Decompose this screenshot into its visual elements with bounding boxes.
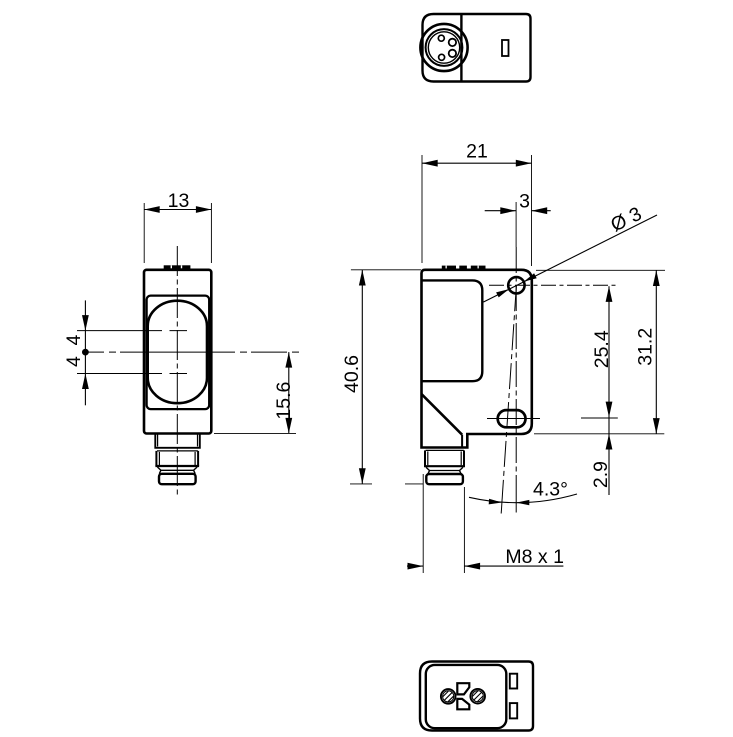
4.3 degree arc (469, 494, 577, 503)
svg-text:4: 4 (63, 356, 85, 367)
arc arrow right (516, 500, 529, 505)
dimension 15.6 line (288, 352, 290, 433)
dimension 4/4 line (84, 300, 86, 405)
dimension 15.6 extension line (214, 432, 296, 434)
front connector thread bottom (155, 465, 199, 467)
dimension 21 line (422, 162, 532, 164)
svg-text:21: 21 (466, 140, 488, 162)
svg-text:4.3°: 4.3° (533, 478, 568, 500)
leader arrow upper (524, 273, 537, 281)
dimension 3 line left part (485, 210, 516, 212)
hole horizontal centerline (489, 284, 618, 286)
front view lens panel (147, 296, 210, 410)
diameter leader line (484, 215, 658, 302)
dimension 2.9 arrow (606, 434, 613, 450)
front connector tip (159, 474, 196, 484)
pin 4 (439, 54, 445, 60)
top view divider line (460, 15, 462, 81)
M8 connector inner ring (428, 32, 459, 63)
mounting slot (498, 410, 526, 427)
svg-text:13: 13 (168, 190, 190, 212)
bowtie top (457, 683, 469, 694)
dimension 25.4 line (608, 286, 610, 495)
bottom extension line (534, 433, 664, 435)
side connector pinch band (426, 467, 430, 474)
front view horizontal centerline (88, 351, 104, 353)
dimension 3 line right part (532, 210, 551, 212)
side connector tip (426, 474, 463, 484)
front connector thread top line (157, 450, 198, 452)
thread inner lines (158, 452, 160, 465)
chamfer step line (461, 435, 463, 448)
hole vertical extension line (515, 202, 517, 247)
dimension 13 extension lines (143, 203, 145, 263)
svg-text:4: 4 (63, 335, 85, 346)
side view lens panel (422, 280, 483, 381)
dimension 21 extension lines (421, 155, 423, 263)
svg-text:15.6: 15.6 (273, 382, 295, 420)
svg-text:25.4: 25.4 (591, 330, 613, 368)
svg-text:3: 3 (519, 190, 530, 212)
side connector thread sides (424, 450, 426, 466)
lower optical axis line (77, 373, 162, 375)
M8 dimension line (407, 565, 423, 567)
thread inner lines (427, 451, 429, 465)
svg-text:M8 x 1: M8 x 1 (505, 546, 564, 568)
slot horizontal centerline (487, 418, 540, 420)
tilted optical axis 4.3 deg (502, 285, 516, 495)
bottom slot 2 (510, 703, 517, 718)
front view vertical centerline (176, 246, 178, 498)
top extension line (536, 269, 665, 271)
svg-text:2.9: 2.9 (590, 461, 612, 488)
top view indicator slot (502, 40, 509, 56)
front connector neck (155, 434, 200, 448)
right screw (470, 689, 485, 704)
bottom slot 1 (510, 674, 517, 689)
dimension 31.2 line (655, 270, 657, 434)
front view lens oval (148, 301, 207, 404)
side view chamfer edge (422, 394, 463, 435)
center dot (82, 349, 89, 356)
leader arrow lower (496, 289, 509, 297)
side view body outline (422, 270, 532, 448)
front connector pinch band (157, 467, 161, 474)
bottom view inner plate (426, 665, 507, 728)
arc arrow left (489, 499, 502, 505)
front connector thread sides (155, 451, 157, 466)
M8 extension lines (422, 474, 424, 573)
mounting hole (508, 277, 524, 293)
M8 connector outer circle (420, 24, 467, 71)
svg-text:31.2: 31.2 (635, 328, 657, 366)
hole vertical centerline (515, 247, 517, 497)
side connector thread top line (426, 449, 464, 451)
left screw (441, 689, 456, 704)
dimension 40.6 line (361, 270, 363, 484)
pin 3 (449, 50, 456, 57)
side view top tabs (442, 266, 456, 270)
40.6 top extension (351, 269, 421, 271)
neck chamfer lines (157, 435, 159, 447)
svg-text:40.6: 40.6 (341, 355, 363, 393)
M8 connector ring (426, 29, 463, 66)
pin 2 (449, 39, 456, 46)
upper optical axis line (77, 330, 162, 332)
top view housing outline (423, 14, 531, 82)
front view top tab (164, 265, 191, 270)
40.6 bottom extension (350, 483, 372, 485)
front view body (144, 270, 211, 434)
pin 1 (438, 35, 444, 41)
bowtie bottom (457, 699, 469, 709)
dimension 13 line (144, 209, 211, 211)
side connector thread bottom (424, 465, 465, 467)
bottom view housing outline (420, 662, 533, 731)
